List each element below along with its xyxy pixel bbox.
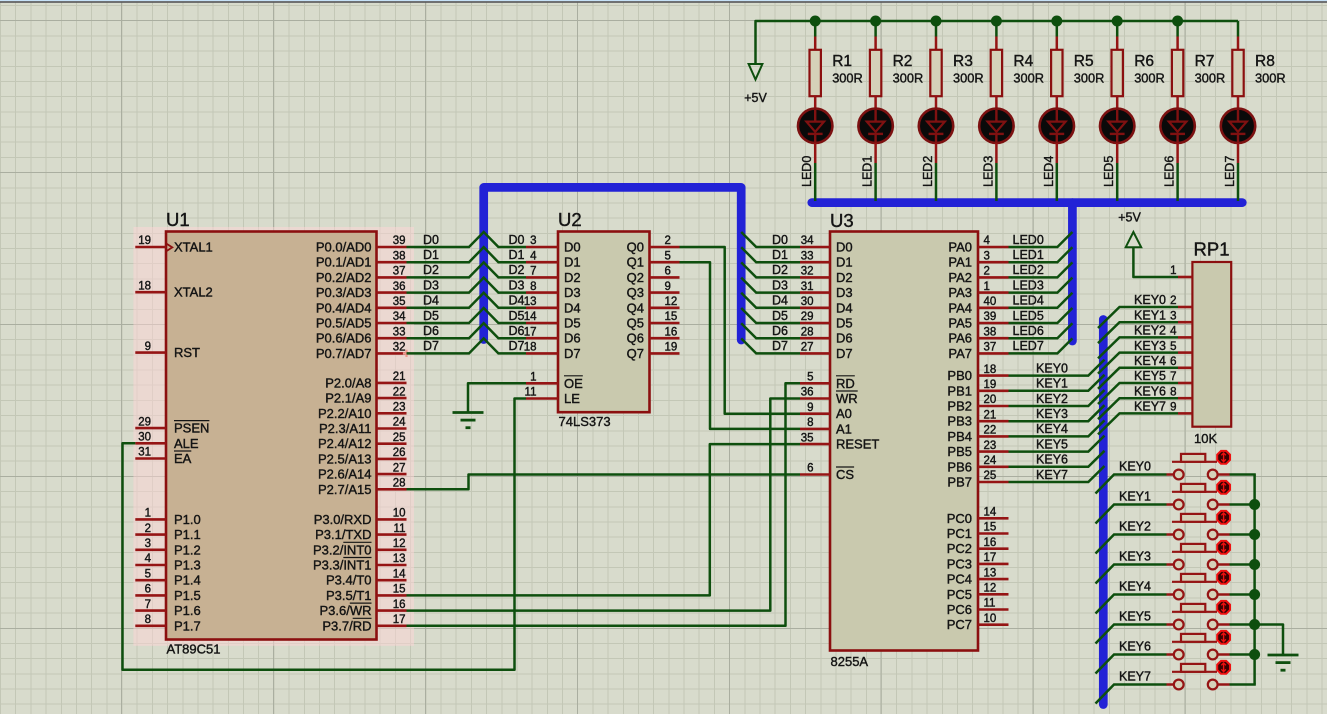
svg-text:R3: R3 [953,53,973,70]
svg-text:Q0: Q0 [627,240,644,255]
svg-text:19: 19 [984,379,997,391]
svg-text:P2.5/A13: P2.5/A13 [318,451,372,466]
svg-text:2: 2 [145,523,151,535]
svg-text:LED2: LED2 [1013,263,1044,277]
svg-text:PB4: PB4 [947,429,972,444]
svg-text:D2: D2 [564,270,581,285]
resistor R1 300R [810,37,863,109]
switch KEY3 pushbutton [1167,544,1230,569]
svg-text:8255A: 8255A [831,654,869,669]
svg-text:R1: R1 [832,53,852,70]
svg-text:38: 38 [984,326,997,338]
svg-text:D1: D1 [772,248,788,262]
bus KEY vertical [1099,320,1108,705]
svg-text:D2: D2 [836,270,853,285]
svg-text:27: 27 [393,462,406,474]
svg-text:28: 28 [801,326,814,338]
wire LED1 U3.PA1 to bus [1009,247,1073,262]
svg-text:P1.7: P1.7 [174,618,201,633]
svg-text:KEY7: KEY7 [1036,468,1068,482]
svg-text:6: 6 [1170,356,1176,368]
junction collector KEY2 [1249,529,1260,540]
svg-text:8: 8 [530,281,536,293]
wire D6 U1.P0.6 to U2.D6 [407,323,527,338]
svg-text:P0.3/AD3: P0.3/AD3 [316,285,372,300]
svg-text:25: 25 [393,432,406,444]
wire KEY5 U3.PB5 to bus [1009,436,1105,452]
svg-text:1: 1 [530,372,536,384]
svg-text:D0: D0 [836,240,853,255]
svg-text:P3.2/INT0: P3.2/INT0 [313,542,372,557]
svg-text:RD: RD [836,376,855,391]
junction collector KEY6 [1249,649,1260,660]
wire LED1 to bus [874,143,877,163]
wire LED5 U3.PA5 to bus [1009,308,1073,323]
wire switch collector vertical [1253,475,1256,685]
svg-text:D4: D4 [772,294,788,308]
wire KEY1 bus to RP1 pin3 [1098,322,1178,343]
svg-text:P0.2/AD2: P0.2/AD2 [316,270,372,285]
power +5V (left) [744,64,767,105]
svg-text:Q2: Q2 [627,270,644,285]
svg-text:12: 12 [665,296,678,308]
wire switch KEY5 to collector [1230,623,1256,626]
svg-text:OE: OE [564,376,583,391]
svg-text:P2.3/A11: P2.3/A11 [319,421,372,436]
svg-text:11: 11 [394,523,406,535]
svg-text:D2: D2 [423,263,439,277]
svg-text:35: 35 [801,432,814,444]
svg-text:300R: 300R [832,71,863,86]
bus U2 data bus (U1-U2-U3) [484,187,742,340]
svg-text:D4: D4 [509,294,525,308]
svg-text:39: 39 [393,235,406,247]
ground (U2 OE) [453,413,484,428]
svg-text:2: 2 [1170,295,1176,307]
wire D7 bus to U3.D7 [741,338,800,353]
svg-text:P0.7/AD7: P0.7/AD7 [316,346,372,361]
wire LED7 to bus [1237,143,1240,163]
svg-text:KEY0: KEY0 [1036,361,1068,375]
svg-text:KEY0: KEY0 [1134,293,1166,307]
svg-text:D5: D5 [423,309,439,323]
svg-text:KEY4: KEY4 [1036,422,1068,436]
wire KEY6 bus to RP1 pin8 [1098,398,1178,419]
svg-text:KEY1: KEY1 [1036,377,1068,391]
wire D5 bus to U3.D5 [741,308,800,323]
svg-text:PB7: PB7 [947,475,972,490]
svg-text:40: 40 [984,296,997,308]
svg-text:30: 30 [801,296,814,308]
svg-text:PC1: PC1 [947,526,972,541]
switch KEY4 pushbutton [1167,574,1230,599]
svg-text:5: 5 [145,568,151,580]
wire ALE to U2.LE [123,399,527,670]
svg-text:36: 36 [801,387,814,399]
actuator marker KEY4 [1217,571,1230,584]
svg-text:D3: D3 [772,278,788,292]
svg-text:PC7: PC7 [947,617,972,632]
resistor R5 300R [1051,37,1104,109]
svg-text:14: 14 [393,568,406,580]
svg-text:R2: R2 [893,53,913,70]
wire LED0 to bus [814,143,817,163]
svg-text:ALE: ALE [174,436,199,451]
svg-text:KEY6: KEY6 [1036,453,1068,467]
wire D2 U1.P0.2 to U2.D2 [407,262,527,277]
svg-text:10K: 10K [1194,431,1217,446]
wire rail to R7 [1176,21,1179,37]
svg-text:PC4: PC4 [947,572,972,587]
wire LED0 U3.PA0 to bus [1009,232,1073,247]
svg-text:PC2: PC2 [947,541,972,556]
svg-text:R8: R8 [1255,53,1275,70]
svg-text:KEY0: KEY0 [1119,459,1151,473]
svg-text:9: 9 [807,402,813,414]
svg-text:PC5: PC5 [947,587,972,602]
svg-text:29: 29 [801,311,814,323]
actuator marker KEY5 [1217,601,1230,614]
svg-text:25: 25 [984,470,997,482]
svg-text:KEY3: KEY3 [1134,339,1166,353]
switch KEY0 pushbutton [1167,454,1230,480]
svg-text:D6: D6 [772,324,788,338]
svg-text:KEY5: KEY5 [1119,609,1151,623]
svg-text:PA6: PA6 [948,331,972,346]
mcu U1 AT89C51 [133,209,414,657]
svg-text:PA5: PA5 [948,316,972,331]
wire KEY0 bus to switch [1096,475,1167,494]
svg-text:LED6: LED6 [1163,156,1177,187]
svg-text:16: 16 [393,599,406,611]
svg-text:34: 34 [393,311,406,323]
svg-text:1: 1 [1170,265,1176,277]
svg-text:LED1: LED1 [1013,248,1044,262]
junction collector KEY1 [1249,499,1260,510]
svg-text:KEY3: KEY3 [1119,549,1151,563]
wire KEY4 bus to switch [1096,595,1167,614]
switch KEY6 pushbutton [1167,634,1230,659]
svg-text:2: 2 [665,235,671,247]
svg-text:13: 13 [984,567,997,579]
svg-text:D1: D1 [836,255,853,270]
svg-text:29: 29 [138,416,151,428]
svg-text:LED5: LED5 [1013,309,1044,323]
svg-text:P2.4/A12: P2.4/A12 [318,436,372,451]
svg-text:3: 3 [530,235,536,247]
svg-text:300R: 300R [1255,71,1286,86]
svg-text:KEY4: KEY4 [1134,354,1166,368]
svg-text:PB2: PB2 [947,399,972,414]
svg-text:5: 5 [665,250,671,262]
svg-text:PA7: PA7 [948,346,972,361]
svg-text:36: 36 [393,281,406,293]
wire KEY3 bus to RP1 pin5 [1098,353,1178,374]
wire switch KEY6 to collector [1230,653,1256,656]
svg-text:4: 4 [984,235,991,247]
svg-text:14: 14 [984,507,997,519]
svg-text:6: 6 [145,584,151,596]
wire D5 U1.P0.5 to U2.D5 [407,308,527,323]
svg-text:P3.6/WR: P3.6/WR [319,603,371,618]
junction rail-R2 [870,16,881,27]
wire switch KEY3 to collector [1230,563,1256,566]
wire rail to R2 [874,21,877,37]
svg-text:39: 39 [984,311,997,323]
svg-text:KEY2: KEY2 [1119,519,1151,533]
wire LED6 to bus [1176,143,1179,163]
svg-text:P1.5: P1.5 [174,588,201,603]
svg-text:9: 9 [145,341,151,353]
svg-text:KEY2: KEY2 [1134,324,1166,338]
wire switch KEY0 to collector [1230,473,1256,476]
junction collector KEY4 [1249,589,1260,600]
svg-text:D5: D5 [836,316,853,331]
svg-text:LED4: LED4 [1042,156,1056,187]
svg-text:EA: EA [174,451,192,466]
svg-text:3: 3 [984,250,990,262]
wire rail to R5 [1056,21,1059,37]
svg-text:KEY2: KEY2 [1036,392,1068,406]
wire switch KEY7 to collector [1230,683,1256,686]
svg-text:9: 9 [1170,402,1176,414]
svg-text:D6: D6 [509,324,525,338]
wire LED7 U3.PA7 to bus [1009,338,1073,353]
svg-text:R4: R4 [1013,53,1033,70]
led D7 (LED6) [1160,109,1194,143]
wire U1.P2.7/A15 to U3.CS [407,475,801,490]
wire KEY2 U3.PB2 to bus [1009,390,1105,406]
wire U1.P3.5/T1 to U3.RESET [407,444,801,595]
wire KEY7 bus to switch [1096,685,1167,704]
wire switch KEY4 to collector [1230,593,1256,596]
svg-text:P2.7/A15: P2.7/A15 [318,482,372,497]
wire D1 bus to U3.D1 [741,247,800,262]
led D2 (LED1) [858,109,892,143]
svg-text:PC6: PC6 [947,602,972,617]
svg-text:XTAL2: XTAL2 [174,285,213,300]
svg-text:D7: D7 [509,339,525,353]
actuator marker KEY3 [1217,541,1230,554]
wire D4 U1.P0.4 to U2.D4 [407,293,527,308]
svg-text:300R: 300R [1134,71,1165,86]
svg-text:PC0: PC0 [947,511,972,526]
svg-text:D1: D1 [423,248,439,262]
svg-text:6: 6 [665,266,671,278]
wire LED6 U3.PA6 to bus [1009,323,1073,338]
svg-text:16: 16 [665,326,678,338]
svg-text:P2.0/A8: P2.0/A8 [325,375,371,390]
svg-text:8: 8 [1170,386,1176,398]
wire LED4 U3.PA4 to bus [1009,293,1073,308]
wire U2.Q1 to U3.A1 [680,262,801,429]
svg-text:LED5: LED5 [1102,156,1116,187]
wire +5V to RP1 pin1 [1133,247,1178,277]
svg-text:PA3: PA3 [948,285,972,300]
switch KEY2 pushbutton [1167,514,1230,539]
svg-text:P1.0: P1.0 [174,512,201,527]
junction collector KEY5 [1249,619,1260,630]
svg-text:31: 31 [138,447,151,459]
wire rail to R4 [995,21,998,37]
power +5V (RP1) [1118,211,1141,248]
svg-text:PC3: PC3 [947,556,972,571]
svg-text:27: 27 [801,342,814,354]
svg-text:33: 33 [801,250,814,262]
svg-text:KEY7: KEY7 [1134,400,1166,414]
svg-text:32: 32 [393,342,406,354]
actuator marker KEY6 [1217,631,1230,644]
wire LED3 to bus [995,143,998,163]
svg-text:23: 23 [393,402,406,414]
led D5 (LED4) [1040,109,1074,143]
wire switch KEY2 to collector [1230,533,1256,536]
svg-text:19: 19 [665,342,678,354]
svg-text:KEY4: KEY4 [1119,579,1151,593]
junction rail-R5 [1051,16,1062,27]
switch KEY7 pushbutton [1167,664,1230,689]
svg-text:30: 30 [138,432,151,444]
svg-text:PA1: PA1 [948,255,972,270]
wire D2 bus to U3.D2 [741,262,800,277]
svg-text:KEY3: KEY3 [1036,407,1068,421]
svg-text:D7: D7 [423,339,439,353]
wire KEY7 bus to RP1 pin9 [1098,413,1178,434]
svg-text:LED4: LED4 [1013,294,1044,308]
wire D7 U1.P0.7 to U2.D7 [407,338,527,353]
resistor R6 300R [1112,37,1165,109]
svg-text:D0: D0 [564,240,581,255]
svg-text:Q4: Q4 [627,300,644,315]
svg-text:D0: D0 [772,233,788,247]
svg-text:KEY7: KEY7 [1119,669,1151,683]
wire KEY1 bus to switch [1096,505,1167,524]
svg-text:D4: D4 [836,300,853,315]
actuator marker KEY7 [1217,661,1230,674]
junction rail-R3 [931,16,942,27]
resistor R8 300R [1232,37,1285,109]
U1 origin marker [403,350,410,357]
svg-text:21: 21 [984,409,997,421]
svg-text:4: 4 [145,553,152,565]
wire D3 U1.P0.3 to U2.D3 [407,278,527,293]
wire +5V rail [756,21,1239,64]
resistor R3 300R [930,37,983,109]
svg-text:WR: WR [836,391,858,406]
svg-text:PSEN: PSEN [174,421,209,436]
svg-text:11: 11 [525,387,537,399]
svg-text:37: 37 [984,342,997,354]
svg-text:P0.0/AD0: P0.0/AD0 [316,240,372,255]
wire U2.Q0 to U3.A0 [680,247,801,414]
svg-text:U1: U1 [166,209,190,230]
svg-text:R6: R6 [1134,53,1154,70]
svg-text:PB5: PB5 [947,444,972,459]
svg-text:LED2: LED2 [921,156,935,187]
svg-text:34: 34 [801,235,814,247]
svg-text:P0.5/AD5: P0.5/AD5 [316,316,372,331]
svg-text:22: 22 [984,425,997,437]
svg-text:300R: 300R [953,71,984,86]
svg-text:P3.5/T1: P3.5/T1 [326,588,372,603]
switch KEY1 pushbutton [1167,484,1230,510]
svg-text:RESET: RESET [836,437,879,452]
svg-text:P1.6: P1.6 [174,603,201,618]
svg-text:XTAL1: XTAL1 [174,240,213,255]
wire KEY2 bus to RP1 pin4 [1098,337,1178,358]
led D4 (LED3) [979,109,1013,143]
svg-text:P3.0/RXD: P3.0/RXD [314,512,372,527]
svg-text:U2: U2 [558,209,582,230]
svg-text:22: 22 [393,386,406,398]
svg-text:R5: R5 [1074,53,1094,70]
svg-text:D7: D7 [772,339,788,353]
svg-text:P1.4: P1.4 [174,573,201,588]
svg-text:7: 7 [530,266,536,278]
wire rail to R6 [1116,21,1119,37]
svg-text:17: 17 [393,614,406,626]
svg-text:74LS373: 74LS373 [559,414,611,429]
svg-text:PB6: PB6 [947,459,972,474]
svg-text:AT89C51: AT89C51 [167,642,221,657]
svg-text:A0: A0 [836,406,852,421]
junction collector KEY3 [1249,559,1260,570]
svg-text:2: 2 [984,266,990,278]
svg-text:P1.2: P1.2 [174,542,201,557]
svg-text:11: 11 [984,598,996,610]
ground (keys) [1268,655,1299,670]
latch U2 74LS373 [524,209,680,429]
svg-text:Q1: Q1 [627,255,644,270]
svg-text:PA0: PA0 [948,240,972,255]
svg-text:KEY1: KEY1 [1119,489,1151,503]
svg-text:P3.1/TXD: P3.1/TXD [315,527,371,542]
wire U1.P3.6/WR to U3.WR [407,399,801,611]
svg-text:33: 33 [393,326,406,338]
wire KEY3 bus to switch [1096,565,1167,584]
svg-text:P0.6/AD6: P0.6/AD6 [316,331,372,346]
svg-text:13: 13 [393,553,406,565]
svg-text:17: 17 [524,326,537,338]
svg-text:U3: U3 [830,210,854,231]
svg-text:21: 21 [393,371,406,383]
svg-text:16: 16 [984,537,997,549]
svg-text:+5V: +5V [1118,211,1141,225]
svg-text:Q7: Q7 [627,346,644,361]
svg-text:PB1: PB1 [947,383,972,398]
svg-text:19: 19 [138,235,151,247]
wire LED2 to bus [935,143,938,163]
led D3 (LED2) [919,109,953,143]
wire D3 bus to U3.D3 [741,278,800,293]
svg-text:KEY1: KEY1 [1134,308,1166,322]
svg-text:5: 5 [807,372,813,384]
svg-text:LE: LE [564,391,580,406]
svg-text:P0.4/AD4: P0.4/AD4 [316,300,372,315]
junction rail-R7 [1172,16,1183,27]
svg-text:D0: D0 [423,233,439,247]
svg-text:LED0: LED0 [800,156,814,187]
svg-text:10: 10 [393,508,406,520]
svg-text:+5V: +5V [744,91,767,105]
junction rail-R4 [991,16,1002,27]
svg-text:P2.2/A10: P2.2/A10 [318,406,372,421]
svg-text:LED3: LED3 [1013,278,1044,292]
svg-text:LED6: LED6 [1013,324,1044,338]
svg-text:P3.7/RD: P3.7/RD [322,618,371,633]
bus LED vertical drop to U3 PA [1068,203,1077,341]
actuator marker KEY2 [1217,511,1230,524]
